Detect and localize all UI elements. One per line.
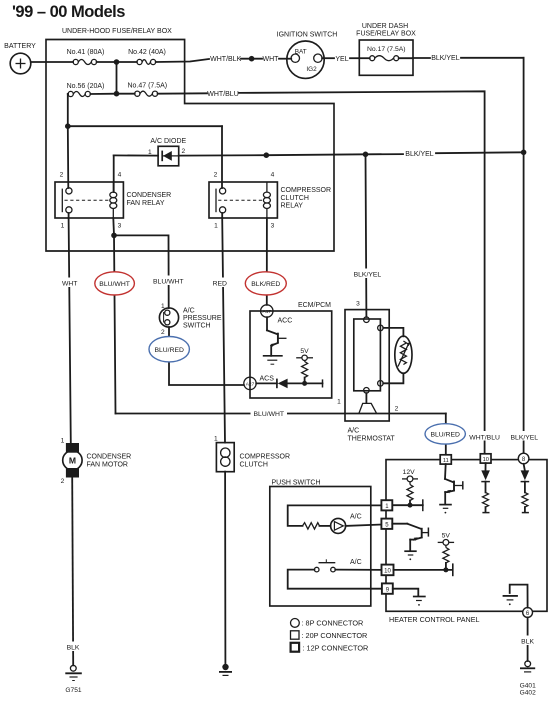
svg-text:BLK/YEL: BLK/YEL [511, 434, 539, 441]
svg-text:4: 4 [118, 172, 122, 179]
svg-text:: 8P CONNECTOR: : 8P CONNECTOR [302, 619, 364, 628]
svg-text:4: 4 [271, 172, 275, 179]
ground G401 G402 [520, 661, 536, 697]
svg-text:A17: A17 [263, 309, 272, 315]
svg-text:CLUTCH: CLUTCH [240, 462, 268, 469]
svg-text:2: 2 [395, 406, 399, 413]
title '99-00 Models [12, 3, 125, 21]
node 5V junction heater [443, 567, 448, 572]
wire BLU/WHT line to thermostat pin 1 [116, 408, 446, 418]
svg-text:WHT: WHT [263, 56, 280, 63]
ignition switch [277, 32, 338, 79]
battery [4, 43, 36, 74]
wire battery to fuse No.41 [31, 61, 73, 63]
switch A/C in push switch [288, 559, 382, 589]
svg-text:1: 1 [61, 223, 65, 230]
svg-text:ACS: ACS [260, 376, 275, 383]
push switch [270, 480, 371, 607]
svg-text:FUSE/RELAY BOX: FUSE/RELAY BOX [356, 31, 416, 38]
fuse No.17 (7.5A) [359, 46, 413, 61]
legend 12P connector [291, 643, 369, 653]
diode ACS in ECM [256, 376, 322, 389]
svg-text:No.17 (7.5A): No.17 (7.5A) [367, 46, 406, 53]
wire BLK connector 6 to ground [519, 617, 538, 661]
svg-text:UNDER-HOOD FUSE/RELAY BOX: UNDER-HOOD FUSE/RELAY BOX [62, 28, 172, 35]
svg-text:THERMOSTAT: THERMOSTAT [348, 436, 396, 443]
svg-text:UNDER DASH: UNDER DASH [362, 23, 408, 30]
svg-text:A27: A27 [246, 381, 255, 387]
wire WHT/BLK to ignition switch [156, 56, 292, 63]
wire connector 10 internal [394, 563, 453, 576]
svg-text:ACC: ACC [278, 318, 293, 325]
pin 6 connector [523, 608, 533, 618]
node ACS junction [302, 381, 307, 386]
svg-text:3: 3 [118, 223, 122, 230]
svg-text:WHT/BLU: WHT/BLU [207, 91, 239, 98]
svg-text:BLK/YEL: BLK/YEL [405, 151, 434, 158]
heater control panel [386, 460, 547, 624]
wire BLK/YEL to thermostat pin 3 [350, 154, 386, 317]
wire pressure switch to ECM A27 (ACS) [169, 327, 244, 385]
svg-text:PRESSURE: PRESSURE [183, 315, 222, 322]
svg-text:2: 2 [214, 172, 218, 179]
ground (heater panel internal) [503, 596, 518, 605]
svg-text:: 12P CONNECTOR: : 12P CONNECTOR [303, 643, 369, 652]
pin 10 connector (left) [382, 565, 394, 576]
svg-text:3: 3 [271, 223, 275, 230]
svg-text:1: 1 [337, 399, 341, 406]
node BLU/RED (blue circled) [149, 337, 189, 362]
svg-text:BLK: BLK [67, 644, 80, 651]
svg-text:10: 10 [483, 457, 489, 463]
wire WHT/BLU [158, 91, 500, 454]
pin 10 connector (top) [480, 454, 491, 463]
svg-text:1: 1 [61, 438, 65, 445]
svg-text:COMPRESSOR: COMPRESSOR [240, 454, 291, 461]
svg-text:11: 11 [443, 458, 449, 464]
svg-text:BLU/RED: BLU/RED [430, 432, 460, 439]
wire push switch lamp feed (connector 1) [288, 505, 382, 526]
svg-text:M: M [69, 456, 76, 466]
svg-text:SWITCH: SWITCH [183, 323, 211, 330]
5V supply in ECM [296, 348, 313, 362]
svg-text:WHT/BLU: WHT/BLU [469, 434, 500, 441]
svg-text:BLK/YEL: BLK/YEL [431, 55, 460, 62]
svg-text:A/C: A/C [183, 308, 195, 315]
pin 5 connector [381, 519, 392, 529]
under-dash fuse/relay box [356, 23, 416, 75]
svg-text:RED: RED [213, 280, 227, 287]
svg-text:2: 2 [161, 329, 165, 336]
svg-text:WHT: WHT [62, 280, 77, 287]
svg-text:COMPRESSOR: COMPRESSOR [281, 187, 332, 194]
node BLU/WHT junction [111, 233, 117, 239]
svg-text:RELAY: RELAY [281, 203, 304, 210]
legend 8P connector [291, 619, 364, 628]
node BLK/RED (red circled) [245, 272, 286, 295]
svg-text:BLU/WHT: BLU/WHT [153, 278, 184, 285]
svg-text:No.41 (80A): No.41 (80A) [67, 49, 105, 56]
wire connector 9 to ground [393, 589, 419, 596]
resistor 5V pull-up in ECM [302, 362, 308, 384]
fuse No.41 (80A) [67, 49, 105, 65]
resistor in push switch [303, 523, 331, 529]
svg-text:10: 10 [384, 569, 391, 575]
wire BLK/YEL vertical to heater panel pin 8 [509, 152, 540, 453]
svg-text:IGNITION SWITCH: IGNITION SWITCH [277, 32, 338, 39]
svg-text:: 20P CONNECTOR: : 20P CONNECTOR [302, 631, 368, 640]
svg-text:A/C DIODE: A/C DIODE [150, 138, 186, 145]
transistor Q2 (pin 5) [392, 524, 428, 560]
svg-text:G402: G402 [520, 690, 536, 697]
node fuse row junction [114, 59, 120, 93]
svg-text:3: 3 [356, 301, 360, 308]
condenser fan motor [61, 438, 132, 486]
lamp A/C indicator [331, 514, 382, 534]
svg-text:5V: 5V [300, 348, 309, 355]
node splice WHT [249, 56, 255, 62]
svg-text:1: 1 [214, 223, 218, 230]
A/C pressure switch [159, 303, 221, 336]
svg-text:ECM/PCM: ECM/PCM [298, 302, 331, 309]
pin 9 connector [382, 583, 393, 593]
node BLK/YEL at thermostat branch [363, 152, 369, 158]
wire WHT relay1 pin1 to condenser fan motor [60, 213, 80, 443]
svg-text:BLU/WHT: BLU/WHT [254, 411, 285, 418]
svg-text:2: 2 [60, 172, 64, 179]
svg-text:G751: G751 [65, 687, 81, 694]
wire connector 1 internal [393, 499, 423, 511]
svg-text:A/C: A/C [350, 559, 362, 566]
wire BLK/YEL from under-dash fuse [413, 55, 524, 152]
wire BLK/YEL main line [114, 151, 524, 192]
pin 1 connector [381, 500, 392, 510]
svg-text:BLU/WHT: BLU/WHT [99, 281, 130, 288]
wire connector 6 internal to ground [510, 585, 528, 608]
wire BLK motor to ground [64, 478, 83, 666]
svg-text:No.56 (20A): No.56 (20A) [67, 83, 105, 90]
under-hood fuse/relay box [46, 28, 334, 251]
svg-text:1: 1 [214, 436, 218, 443]
svg-text:FAN MOTOR: FAN MOTOR [87, 462, 128, 469]
svg-text:IG2: IG2 [306, 66, 317, 73]
fuse No.42 (40A) [128, 49, 166, 65]
A/C diode [148, 138, 187, 166]
svg-text:BAT: BAT [295, 49, 307, 56]
ECM/PCM [250, 302, 332, 398]
svg-text:'99 – 00 Models: '99 – 00 Models [12, 3, 125, 21]
svg-text:BLK/YEL: BLK/YEL [354, 271, 382, 278]
svg-text:BATTERY: BATTERY [4, 43, 36, 50]
compressor clutch [214, 436, 290, 472]
svg-text:12V: 12V [403, 469, 416, 476]
svg-text:BLU/RED: BLU/RED [154, 347, 184, 354]
svg-text:HEATER CONTROL PANEL: HEATER CONTROL PANEL [389, 615, 480, 624]
svg-text:CONDENSER: CONDENSER [87, 454, 132, 461]
resistor BLK/YEL chain [522, 492, 529, 512]
compressor clutch relay [209, 172, 331, 230]
svg-text:No.42 (40A): No.42 (40A) [128, 49, 166, 56]
wire fuse41 to fuse42 [97, 61, 137, 63]
condenser fan relay [55, 172, 171, 230]
wire RED relay2 pin1 to compressor clutch [211, 213, 230, 443]
svg-text:2: 2 [61, 478, 65, 485]
5V supply in heater panel [438, 533, 454, 548]
transistor Q1 (pin 11) [439, 464, 463, 513]
node fuse56 branch junction [65, 123, 71, 129]
svg-text:CONDENSER: CONDENSER [127, 192, 172, 199]
node 12V junction [408, 503, 413, 508]
fuse No.47 (7.5A) [117, 83, 168, 97]
diode indicator BLK/YEL [521, 464, 530, 493]
resistor 12V pull-up [407, 485, 413, 506]
svg-text:BLK/RED: BLK/RED [251, 281, 280, 288]
pin A27 connector [244, 377, 256, 389]
svg-text:1: 1 [148, 149, 152, 156]
switch contact of thermostat [359, 393, 377, 413]
thermistor of thermostat [383, 328, 412, 383]
svg-text:A/C: A/C [350, 514, 362, 521]
svg-text:1: 1 [161, 303, 165, 310]
wire BLU/RED thermostat pin 2 to heater panel [445, 414, 447, 456]
resistor WHT/BLU chain [482, 492, 489, 512]
svg-text:YEL: YEL [335, 56, 348, 63]
node BLU/WHT (red circled) [95, 272, 135, 295]
transistor ACC [263, 317, 292, 364]
svg-text:CLUTCH: CLUTCH [281, 195, 309, 202]
svg-text:FAN RELAY: FAN RELAY [127, 200, 165, 207]
svg-text:2: 2 [182, 148, 186, 155]
svg-text:5V: 5V [442, 533, 451, 540]
svg-text:G401: G401 [520, 683, 536, 690]
svg-text:WHT/BLK: WHT/BLK [210, 56, 241, 63]
wire BLU/WHT down to thermostat line [114, 235, 116, 413]
node BLK/YEL at compressor relay coil [264, 152, 270, 158]
pin 8 connector [518, 453, 529, 464]
ground (connector 9 internal) [413, 597, 426, 606]
node fuse row 2 junction [114, 91, 120, 97]
pin A17 connector [261, 305, 273, 317]
wire BLU/WHT branch to pressure switch [114, 235, 187, 308]
wire fuse56 output to relays [68, 94, 222, 188]
svg-text:PUSH SWITCH: PUSH SWITCH [272, 480, 321, 487]
ground G751 [65, 665, 82, 694]
diode indicator WHT/BLU [481, 463, 490, 492]
wire relay1 pin3 (coil) to junction [112, 218, 115, 235]
wire YEL [322, 56, 359, 63]
node BLK/YEL at right vertical [521, 150, 527, 156]
resistor 5V pull-up heater [443, 548, 449, 570]
svg-text:BLK: BLK [521, 638, 534, 645]
svg-text:No.47 (7.5A): No.47 (7.5A) [127, 83, 167, 90]
wire compressor clutch to ground [224, 472, 226, 664]
A/C thermostat [337, 301, 399, 443]
ground (compressor clutch) [219, 664, 232, 676]
pin 11 connector [440, 455, 451, 464]
fuse No.56 (20A) [67, 83, 117, 97]
wire BLK/RED relay2 pin3 to ECM A17 [266, 218, 268, 305]
12V supply in heater panel [402, 469, 418, 485]
legend 20P connector [291, 631, 368, 640]
svg-text:A/C: A/C [348, 428, 360, 435]
node BLU/RED (blue circled) at heater panel [425, 424, 465, 444]
